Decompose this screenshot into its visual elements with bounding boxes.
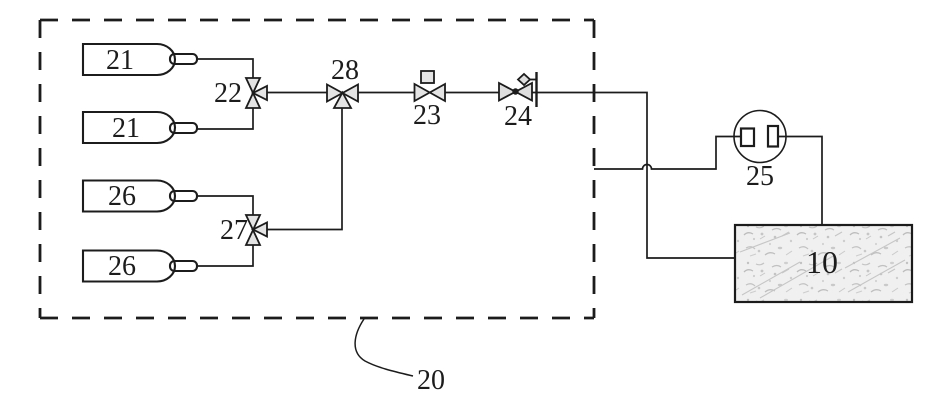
svg-text:27: 27 bbox=[220, 215, 248, 246]
svg-text:23: 23 bbox=[413, 100, 441, 131]
svg-text:20: 20 bbox=[417, 365, 445, 396]
svg-text:28: 28 bbox=[331, 55, 359, 86]
svg-text:25: 25 bbox=[746, 161, 774, 192]
svg-text:22: 22 bbox=[214, 78, 242, 109]
svg-text:26: 26 bbox=[108, 181, 136, 212]
svg-text:21: 21 bbox=[112, 113, 140, 144]
svg-text:26: 26 bbox=[108, 251, 136, 282]
svg-text:10: 10 bbox=[806, 244, 838, 280]
svg-text:21: 21 bbox=[106, 45, 134, 76]
svg-text:24: 24 bbox=[504, 101, 532, 132]
